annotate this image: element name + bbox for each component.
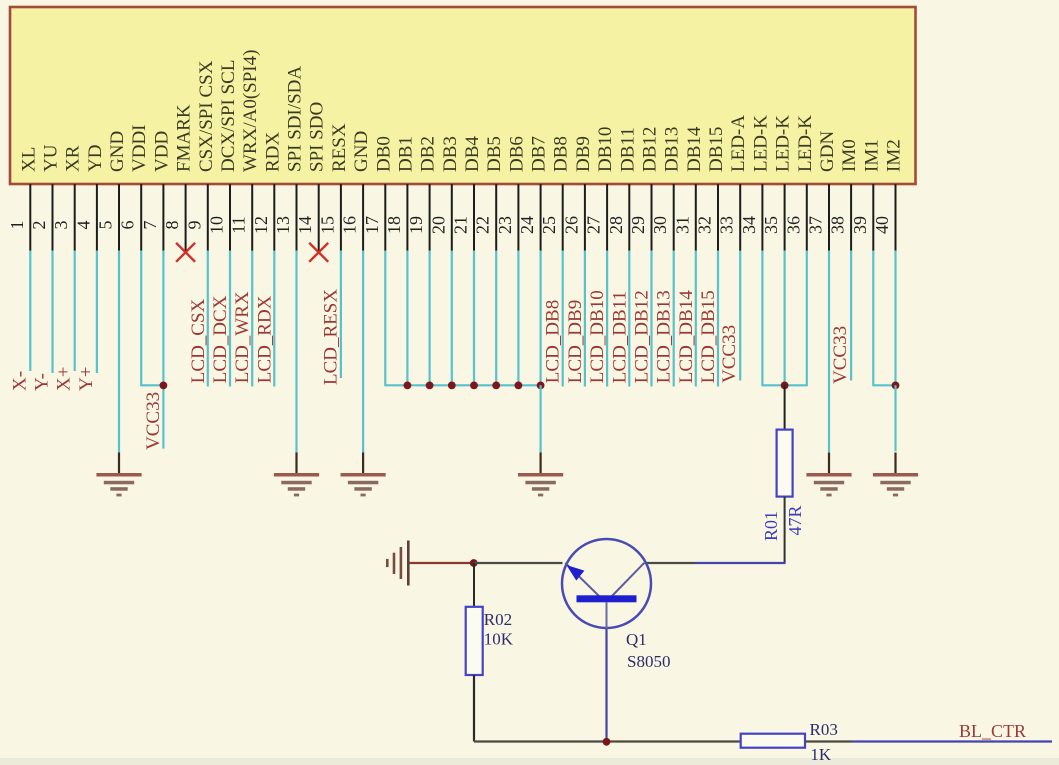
svg-text:SPI SDO: SPI SDO bbox=[307, 102, 328, 172]
resistor R01 bbox=[777, 430, 793, 497]
ground pin16 GND bbox=[341, 453, 386, 497]
pin 16 stub bbox=[362, 184, 364, 251]
junction dot LED-K pin35 bbox=[781, 382, 789, 390]
svg-text:SPI SDI/SDA: SPI SDI/SDA bbox=[285, 66, 306, 172]
svg-text:LCD_DB13: LCD_DB13 bbox=[654, 290, 675, 383]
wire IM1-IM2 bracket pins 39-40 bbox=[873, 384, 895, 386]
pin 15 stub bbox=[340, 184, 342, 251]
svg-text:DB9: DB9 bbox=[573, 136, 594, 172]
svg-text:DB14: DB14 bbox=[684, 126, 705, 172]
svg-text:YD: YD bbox=[85, 145, 106, 172]
wire pin 22 bbox=[495, 251, 497, 387]
transistor Q1 emitter line bbox=[565, 563, 599, 596]
junction dot bus pin 24 bbox=[537, 382, 545, 390]
svg-text:36: 36 bbox=[783, 216, 803, 234]
wire pin 32 bbox=[717, 251, 719, 387]
svg-text:15: 15 bbox=[317, 216, 337, 234]
svg-text:LCD_DB8: LCD_DB8 bbox=[543, 300, 564, 383]
wire pin 37 bbox=[828, 251, 830, 453]
ground emitter (rotated) bbox=[387, 541, 408, 586]
wire pin 39 bbox=[872, 251, 874, 387]
svg-text:VDDI: VDDI bbox=[129, 125, 150, 173]
svg-text:19: 19 bbox=[406, 216, 426, 234]
svg-text:WRX/A0(SPI4): WRX/A0(SPI4) bbox=[240, 50, 261, 172]
wire collector to R01 bbox=[645, 562, 696, 564]
svg-text:X-: X- bbox=[9, 371, 30, 391]
svg-text:10: 10 bbox=[207, 216, 227, 234]
svg-text:26: 26 bbox=[561, 216, 581, 234]
svg-text:CSX/SPI CSX: CSX/SPI CSX bbox=[196, 60, 217, 172]
svg-text:LCD_DB10: LCD_DB10 bbox=[587, 290, 608, 383]
pin 18 stub bbox=[406, 184, 408, 251]
svg-text:LCD_DB11: LCD_DB11 bbox=[609, 291, 630, 383]
svg-text:DB10: DB10 bbox=[595, 127, 616, 172]
pin 5 stub bbox=[118, 184, 120, 251]
wire pin 7 bbox=[162, 251, 164, 449]
svg-text:47R: 47R bbox=[785, 505, 805, 535]
svg-text:39: 39 bbox=[850, 216, 870, 234]
wire emitter bbox=[474, 562, 563, 564]
svg-text:VCC33: VCC33 bbox=[143, 392, 164, 450]
svg-text:DB6: DB6 bbox=[506, 136, 527, 172]
wire pin 35 bbox=[783, 251, 785, 387]
wire pin 6 bbox=[140, 251, 142, 387]
pin 31 stub bbox=[695, 184, 697, 251]
pin 35 stub bbox=[784, 184, 786, 251]
svg-text:RDX: RDX bbox=[262, 132, 283, 172]
svg-text:LCD_DB15: LCD_DB15 bbox=[698, 290, 719, 383]
wire R02 top leg bbox=[473, 563, 475, 607]
svg-text:9: 9 bbox=[184, 221, 204, 230]
svg-text:18: 18 bbox=[384, 216, 404, 234]
junction dot bus pin 23 bbox=[515, 382, 523, 390]
pin 33 stub bbox=[739, 184, 741, 251]
svg-text:LCD_DB14: LCD_DB14 bbox=[676, 290, 697, 383]
svg-text:8: 8 bbox=[162, 221, 182, 230]
svg-text:VCC33: VCC33 bbox=[719, 325, 740, 383]
svg-text:RESX: RESX bbox=[329, 123, 350, 172]
wire pin 26 bbox=[584, 251, 586, 387]
wire pin 3 bbox=[74, 251, 76, 372]
svg-text:LCD_DB12: LCD_DB12 bbox=[632, 290, 653, 383]
svg-text:LCD_RESX: LCD_RESX bbox=[320, 289, 341, 385]
svg-text:22: 22 bbox=[473, 216, 493, 234]
svg-text:Y+: Y+ bbox=[76, 367, 97, 391]
svg-text:17: 17 bbox=[362, 216, 382, 234]
wire pin 40 bbox=[894, 251, 896, 387]
svg-text:35: 35 bbox=[761, 216, 781, 234]
pin 14 stub bbox=[318, 184, 320, 251]
svg-text:33: 33 bbox=[717, 216, 737, 234]
pin 6 stub bbox=[140, 184, 142, 251]
svg-text:FMARK: FMARK bbox=[174, 104, 195, 172]
svg-text:28: 28 bbox=[606, 216, 626, 234]
svg-text:DB2: DB2 bbox=[418, 136, 439, 172]
svg-text:LED-K: LED-K bbox=[795, 115, 816, 172]
svg-text:29: 29 bbox=[628, 216, 648, 234]
pin 22 stub bbox=[495, 184, 497, 251]
pin 13 stub bbox=[296, 184, 298, 251]
ground pin13 SPI-SDI bbox=[274, 453, 319, 497]
pin 37 stub bbox=[828, 184, 830, 251]
junction dot bus pin 19 bbox=[426, 382, 434, 390]
svg-text:BL_CTR: BL_CTR bbox=[959, 721, 1026, 741]
svg-text:14: 14 bbox=[295, 216, 315, 234]
wire bottom horizontal bbox=[474, 740, 741, 742]
pin 1 stub bbox=[29, 184, 31, 251]
junction dot bus pin 20 bbox=[448, 382, 456, 390]
svg-text:DCX/SPI SCL: DCX/SPI SCL bbox=[218, 60, 239, 172]
wire LED-K bracket pins 34-36 bbox=[762, 384, 806, 386]
svg-text:24: 24 bbox=[517, 216, 537, 234]
svg-text:DB4: DB4 bbox=[462, 136, 483, 172]
no-connect X pin 14 bbox=[309, 243, 328, 262]
svg-text:38: 38 bbox=[828, 216, 848, 234]
wire pin 27 bbox=[606, 251, 608, 387]
pin 11 stub bbox=[251, 184, 253, 251]
svg-text:GND: GND bbox=[351, 131, 372, 172]
junction dot bus pin 21 bbox=[470, 382, 478, 390]
pin 29 stub bbox=[651, 184, 653, 251]
svg-text:X+: X+ bbox=[54, 367, 75, 391]
wire pin 5 bbox=[118, 251, 120, 453]
wire bus ground leg bbox=[539, 385, 541, 453]
svg-text:13: 13 bbox=[273, 216, 293, 234]
svg-text:IM1: IM1 bbox=[861, 139, 882, 172]
pin 32 stub bbox=[717, 184, 719, 251]
resistor R02 bbox=[466, 607, 483, 675]
wire pin 31 bbox=[695, 251, 697, 387]
svg-text:LCD_DB9: LCD_DB9 bbox=[565, 300, 586, 383]
wire LED-K to R01 bbox=[784, 385, 786, 429]
pin 7 stub bbox=[162, 184, 164, 251]
pin 27 stub bbox=[606, 184, 608, 251]
wire pin 18 bbox=[406, 251, 408, 387]
svg-text:37: 37 bbox=[806, 216, 826, 234]
wire pin 30 bbox=[673, 251, 675, 387]
junction dot bus pin 22 bbox=[492, 382, 500, 390]
junction dot IM2 pin40 bbox=[892, 382, 900, 390]
wire pin 28 bbox=[628, 251, 630, 387]
svg-text:34: 34 bbox=[739, 216, 759, 234]
wire pin 29 bbox=[650, 251, 652, 387]
junction dot bus pin 18 bbox=[404, 382, 412, 390]
wire emitter ground stem bbox=[409, 562, 473, 564]
svg-text:23: 23 bbox=[495, 216, 515, 234]
pin 36 stub bbox=[806, 184, 808, 251]
resistor R03 bbox=[741, 734, 805, 748]
pin 38 stub bbox=[850, 184, 852, 251]
wire ground bus pins 17-24 bbox=[385, 384, 540, 386]
pin 21 stub bbox=[473, 184, 475, 251]
wire pin 21 bbox=[473, 251, 475, 387]
svg-text:LCD_CSX: LCD_CSX bbox=[188, 298, 209, 383]
pin 40 stub bbox=[895, 184, 897, 251]
wire pin 19 bbox=[429, 251, 431, 387]
svg-text:1K: 1K bbox=[810, 745, 832, 764]
transistor Q1 collector line bbox=[612, 563, 644, 596]
svg-text:12: 12 bbox=[251, 216, 271, 234]
svg-text:30: 30 bbox=[650, 216, 670, 234]
svg-text:DB12: DB12 bbox=[640, 127, 661, 172]
svg-text:DB0: DB0 bbox=[373, 136, 394, 172]
pin 34 stub bbox=[761, 184, 763, 251]
wire R03 to BL_CTR bbox=[805, 740, 852, 742]
connector P1 LCD module box bbox=[10, 7, 916, 184]
svg-text:11: 11 bbox=[229, 216, 249, 233]
svg-text:R03: R03 bbox=[810, 720, 838, 739]
wire pin 2 bbox=[51, 251, 53, 374]
wire pin 20 bbox=[451, 251, 453, 387]
pin 3 stub bbox=[74, 184, 76, 251]
svg-text:XL: XL bbox=[18, 147, 39, 172]
svg-text:1: 1 bbox=[7, 221, 27, 230]
wire pin 4 bbox=[96, 251, 98, 374]
junction dot VCC33 pin7 bbox=[160, 382, 168, 390]
svg-text:DB7: DB7 bbox=[529, 136, 550, 172]
svg-text:YU: YU bbox=[41, 144, 62, 172]
svg-text:VDD: VDD bbox=[151, 131, 172, 172]
svg-text:GND: GND bbox=[107, 131, 128, 172]
svg-text:6: 6 bbox=[118, 221, 138, 230]
svg-text:DB5: DB5 bbox=[484, 136, 505, 172]
wire VCC33 bracket pins 6-7 bbox=[141, 384, 163, 386]
svg-text:IM0: IM0 bbox=[839, 139, 860, 172]
svg-text:XR: XR bbox=[63, 145, 84, 172]
svg-text:VCC33: VCC33 bbox=[830, 326, 851, 384]
svg-text:16: 16 bbox=[340, 216, 360, 234]
pin 12 stub bbox=[273, 184, 275, 251]
wire pin 33 bbox=[739, 251, 741, 381]
wire pin 36 bbox=[806, 251, 808, 387]
wire pin 12 bbox=[273, 251, 275, 387]
pin 25 stub bbox=[562, 184, 564, 251]
svg-text:DB13: DB13 bbox=[662, 127, 683, 172]
svg-text:DB11: DB11 bbox=[617, 127, 638, 172]
svg-text:LCD_WRX: LCD_WRX bbox=[232, 291, 253, 383]
pin 23 stub bbox=[517, 184, 519, 251]
svg-text:10K: 10K bbox=[484, 630, 514, 649]
pin 10 stub bbox=[229, 184, 231, 251]
svg-text:DB8: DB8 bbox=[551, 136, 572, 172]
svg-text:R02: R02 bbox=[484, 610, 512, 629]
svg-text:40: 40 bbox=[872, 216, 892, 234]
wire pin 10 bbox=[229, 251, 231, 387]
pin 30 stub bbox=[673, 184, 675, 251]
svg-text:DB3: DB3 bbox=[440, 136, 461, 172]
pin 19 stub bbox=[429, 184, 431, 251]
wire pin 15 bbox=[340, 251, 342, 379]
svg-text:31: 31 bbox=[672, 216, 692, 234]
svg-text:DB1: DB1 bbox=[395, 136, 416, 172]
transistor Q1 base bar bbox=[577, 595, 637, 602]
svg-text:Y-: Y- bbox=[32, 373, 53, 391]
wire R01 bottom leg bbox=[784, 497, 786, 564]
pin 20 stub bbox=[451, 184, 453, 251]
pin 39 stub bbox=[872, 184, 874, 251]
wire pin 24 bbox=[539, 251, 541, 387]
wire pin 1 bbox=[29, 251, 31, 372]
wire IM ground leg bbox=[894, 385, 896, 451]
pin 4 stub bbox=[96, 184, 98, 251]
wire pin 11 bbox=[251, 251, 253, 387]
svg-text:25: 25 bbox=[539, 216, 559, 234]
wire Q1 base lead bbox=[606, 602, 608, 628]
pin 24 stub bbox=[540, 184, 542, 251]
svg-text:LED-K: LED-K bbox=[750, 115, 771, 172]
svg-text:GDN: GDN bbox=[817, 131, 838, 172]
pin 8 stub bbox=[185, 184, 187, 251]
svg-text:5: 5 bbox=[96, 221, 116, 230]
svg-text:7: 7 bbox=[140, 221, 160, 230]
svg-text:4: 4 bbox=[73, 221, 93, 230]
pin 2 stub bbox=[52, 184, 54, 251]
pin 26 stub bbox=[584, 184, 586, 251]
pin 17 stub bbox=[384, 184, 386, 251]
pin 9 stub bbox=[207, 184, 209, 251]
svg-text:LED-A: LED-A bbox=[728, 115, 749, 172]
ground DB bus bbox=[518, 453, 563, 497]
wire pin 38 bbox=[850, 251, 852, 381]
wire R02 bottom leg bbox=[473, 675, 475, 742]
svg-text:Q1: Q1 bbox=[626, 630, 647, 649]
ground IM1-IM2 bbox=[873, 453, 918, 497]
wire pin 16 bbox=[362, 251, 364, 453]
ground pin5 GND bbox=[96, 453, 141, 497]
wire pin 34 bbox=[761, 251, 763, 387]
wire pin 17 bbox=[384, 251, 386, 387]
ground pin37 GDN bbox=[806, 453, 851, 497]
wire pin 25 bbox=[562, 251, 564, 387]
wire pin 23 bbox=[517, 251, 519, 387]
svg-text:27: 27 bbox=[584, 216, 604, 234]
svg-text:LED-K: LED-K bbox=[773, 115, 794, 172]
svg-text:S8050: S8050 bbox=[627, 652, 670, 671]
svg-text:20: 20 bbox=[428, 216, 448, 234]
pin 28 stub bbox=[628, 184, 630, 251]
svg-text:R01: R01 bbox=[761, 511, 781, 541]
svg-text:DB15: DB15 bbox=[706, 127, 727, 172]
wire pin 9 bbox=[207, 251, 209, 387]
svg-text:2: 2 bbox=[29, 221, 49, 230]
svg-text:21: 21 bbox=[451, 216, 471, 234]
svg-text:LCD_DCX: LCD_DCX bbox=[210, 295, 231, 383]
junction dot base/bottom bbox=[603, 738, 611, 746]
no-connect X pin 8 bbox=[176, 243, 195, 262]
transistor Q1 emitter arrow bbox=[566, 565, 584, 581]
wire pin 13 bbox=[295, 251, 297, 453]
svg-text:IM2: IM2 bbox=[884, 139, 905, 172]
junction dot emitter/R02 bbox=[470, 559, 478, 567]
svg-text:LCD_RDX: LCD_RDX bbox=[254, 295, 275, 383]
transistor Q1 circle bbox=[562, 539, 651, 628]
svg-text:32: 32 bbox=[695, 216, 715, 234]
svg-text:3: 3 bbox=[51, 221, 71, 230]
